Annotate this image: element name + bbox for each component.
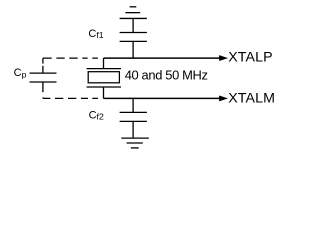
ground (bottom) <box>121 138 149 148</box>
crystal Y1 (40 and 50 MHz) <box>87 69 121 87</box>
wire: XTALM to Cf2 <box>132 98 134 112</box>
svg-text:Cp: Cp <box>14 67 27 79</box>
capacitor Cf2 <box>120 112 147 121</box>
svg-text:Cf2: Cf2 <box>89 109 104 121</box>
wire: dashed from Cp corner to XTALM node <box>43 97 98 99</box>
wire: crystal bottom plate to XTALM node <box>103 87 105 98</box>
arrowhead XTALM <box>219 95 228 101</box>
wire: Cf1 to XTALP net <box>132 41 134 58</box>
capacitor Cp <box>30 73 57 82</box>
wire: XTALP net (solid) <box>104 57 220 59</box>
svg-text:Cf1: Cf1 <box>88 28 103 40</box>
wire: dashed from Cp corner to XTALP node <box>43 57 98 59</box>
wire: dashed vertical Cp bottom <box>42 82 44 98</box>
svg-text:XTALP: XTALP <box>228 50 273 66</box>
svg-text:XTALM: XTALM <box>228 90 275 106</box>
arrowhead XTALP <box>219 55 228 61</box>
ground (top, inverted) <box>120 7 147 19</box>
wire: XTALM net (solid) <box>104 97 220 99</box>
svg-text:40 and 50 MHz: 40 and 50 MHz <box>125 68 208 83</box>
wire: Cf2 to bottom ground <box>132 121 134 138</box>
wire: XTALP node to crystal top plate <box>103 58 105 69</box>
wire: top ground to Cf1 <box>132 18 134 32</box>
wire: dashed vertical Cp top <box>42 58 44 73</box>
capacitor Cf1 <box>120 33 147 42</box>
